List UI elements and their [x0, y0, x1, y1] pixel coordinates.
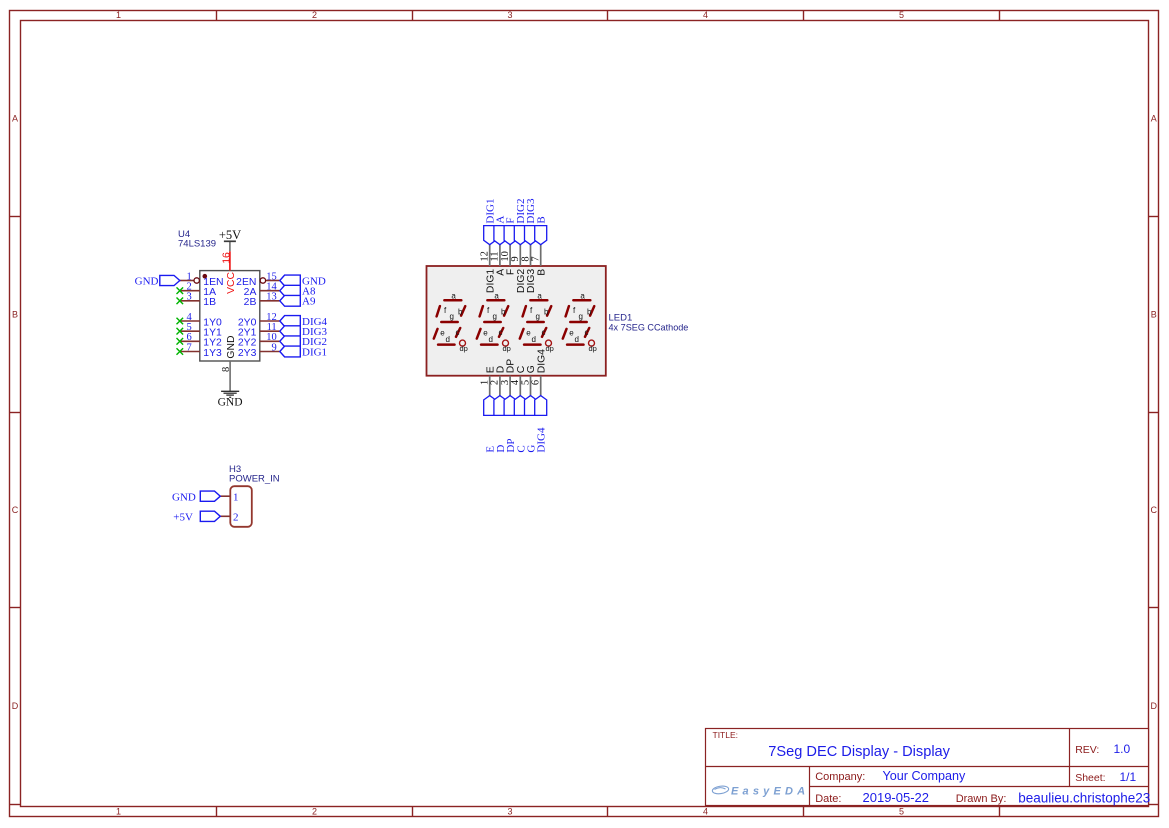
- svg-text:5: 5: [899, 10, 904, 20]
- svg-text:b: b: [587, 307, 592, 316]
- svg-text:7: 7: [531, 256, 542, 261]
- svg-text:beaulieu.christophe23: beaulieu.christophe23: [1018, 791, 1150, 806]
- svg-text:EasyEDA: EasyEDA: [731, 786, 809, 798]
- svg-text:1: 1: [116, 807, 121, 817]
- svg-text:Drawn By:: Drawn By:: [956, 793, 1007, 805]
- svg-text:dp: dp: [589, 344, 597, 353]
- svg-text:GND: GND: [172, 491, 196, 503]
- svg-text:C: C: [12, 505, 19, 515]
- svg-text:1: 1: [116, 10, 121, 20]
- svg-text:4: 4: [703, 807, 708, 817]
- svg-text:4: 4: [703, 10, 708, 20]
- svg-text:6: 6: [531, 380, 542, 385]
- svg-text:1B: 1B: [203, 297, 216, 308]
- svg-text:a: a: [580, 292, 585, 301]
- svg-text:3: 3: [507, 807, 512, 817]
- svg-text:7: 7: [187, 342, 192, 353]
- svg-text:A9: A9: [302, 296, 316, 308]
- svg-text:B: B: [536, 269, 547, 276]
- svg-text:a: a: [451, 292, 456, 301]
- svg-text:8: 8: [221, 367, 232, 372]
- svg-text:2B: 2B: [244, 297, 257, 308]
- svg-text:16: 16: [220, 252, 232, 264]
- svg-text:c: c: [542, 328, 546, 337]
- svg-text:9: 9: [271, 342, 276, 353]
- svg-text:dp: dp: [460, 344, 468, 353]
- svg-text:D: D: [12, 701, 19, 711]
- svg-text:b: b: [501, 307, 506, 316]
- svg-text:a: a: [537, 292, 542, 301]
- svg-text:d: d: [489, 335, 493, 344]
- svg-text:A: A: [1151, 114, 1157, 124]
- svg-text:2: 2: [312, 10, 317, 20]
- svg-text:13: 13: [266, 292, 277, 303]
- svg-text:3: 3: [507, 10, 512, 20]
- svg-text:TITLE:: TITLE:: [713, 730, 739, 740]
- svg-text:B: B: [12, 310, 18, 320]
- svg-text:c: c: [456, 328, 460, 337]
- svg-text:A: A: [12, 114, 18, 124]
- svg-text:c: c: [499, 328, 503, 337]
- svg-text:+5V: +5V: [219, 228, 241, 242]
- svg-text:C: C: [1151, 505, 1158, 515]
- svg-text:b: b: [458, 307, 463, 316]
- svg-text:g: g: [450, 312, 454, 321]
- svg-text:d: d: [446, 335, 450, 344]
- svg-text:d: d: [575, 335, 579, 344]
- svg-text:g: g: [579, 312, 583, 321]
- svg-text:g: g: [493, 312, 497, 321]
- svg-text:GND: GND: [218, 397, 243, 409]
- svg-text:GND: GND: [135, 275, 159, 287]
- svg-text:Date:: Date:: [815, 793, 841, 805]
- svg-text:2: 2: [233, 512, 239, 524]
- svg-text:DIG4: DIG4: [536, 349, 547, 373]
- svg-text:DIG4: DIG4: [536, 427, 548, 453]
- svg-text:POWER_IN: POWER_IN: [229, 473, 280, 484]
- svg-text:D: D: [1151, 701, 1158, 711]
- svg-text:b: b: [544, 307, 549, 316]
- svg-text:2019-05-22: 2019-05-22: [863, 790, 930, 805]
- svg-text:B: B: [535, 216, 547, 223]
- svg-text:+5V: +5V: [173, 512, 193, 524]
- svg-text:4x 7SEG CCathode: 4x 7SEG CCathode: [609, 322, 689, 332]
- svg-text:1Y3: 1Y3: [203, 348, 222, 359]
- svg-text:7Seg DEC Display - Display: 7Seg DEC Display - Display: [768, 744, 950, 760]
- svg-text:DIG1: DIG1: [302, 346, 327, 358]
- svg-text:1/1: 1/1: [1120, 770, 1137, 784]
- svg-text:g: g: [536, 312, 540, 321]
- svg-text:1: 1: [233, 492, 239, 504]
- svg-text:2: 2: [312, 807, 317, 817]
- svg-text:5: 5: [899, 807, 904, 817]
- svg-text:Sheet:: Sheet:: [1075, 772, 1105, 784]
- svg-text:GND: GND: [226, 336, 237, 359]
- svg-text:c: c: [585, 328, 589, 337]
- svg-text:74LS139: 74LS139: [178, 239, 216, 250]
- svg-text:d: d: [532, 335, 536, 344]
- svg-text:B: B: [1151, 310, 1157, 320]
- svg-text:2Y3: 2Y3: [238, 348, 257, 359]
- svg-text:REV:: REV:: [1075, 744, 1099, 756]
- svg-text:1.0: 1.0: [1114, 742, 1131, 756]
- svg-text:dp: dp: [503, 344, 511, 353]
- svg-text:Company:: Company:: [815, 771, 865, 783]
- svg-text:Your Company: Your Company: [883, 769, 967, 783]
- svg-text:3: 3: [187, 292, 192, 303]
